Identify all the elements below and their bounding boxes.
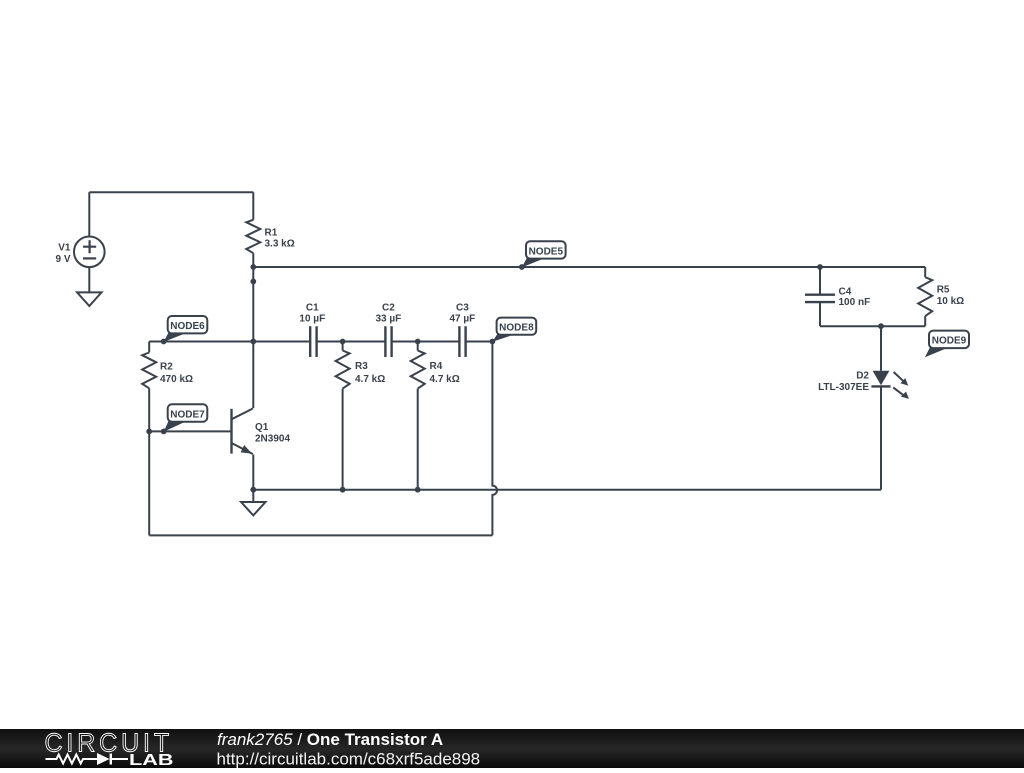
junction dot NODE6 label anchor (161, 339, 167, 345)
junction dot collector at NODE6 wire (250, 339, 256, 345)
svg-text:http://circuitlab.com/c68xrf5a: http://circuitlab.com/c68xrf5ade898 (217, 750, 481, 769)
junction dot NODE8 corner (490, 339, 496, 345)
svg-text:C2: C2 (382, 303, 395, 314)
svg-text:470 kΩ: 470 kΩ (160, 374, 193, 385)
wire R5 top lead (924, 267, 926, 277)
capacitor C1 plates (310, 326, 316, 357)
svg-text:C3: C3 (456, 303, 469, 314)
svg-text:100 nF: 100 nF (839, 297, 871, 308)
logo resistor symbol (46, 755, 98, 764)
transistor Q1 collector stroke (232, 409, 253, 420)
junction dot emitter at ground rail (250, 487, 256, 493)
svg-text:R1: R1 (265, 228, 278, 239)
wire V1 bottom lead to ground (88, 267, 90, 292)
svg-text:C1: C1 (306, 303, 319, 314)
svg-text:2N3904: 2N3904 (255, 433, 290, 444)
wire C4 bottom lead (819, 302, 821, 326)
node NODE8 box (497, 318, 537, 335)
svg-text:NODE6: NODE6 (170, 321, 205, 332)
wire R1 top lead (252, 192, 254, 220)
diode D2 cathode bar (871, 385, 890, 387)
svg-text:R2: R2 (160, 361, 173, 372)
junction dot NODE5 label anchor (519, 264, 525, 270)
wire bottom right horizontal (C4 to R5) (820, 325, 925, 327)
junction dot base wire left (146, 429, 152, 435)
svg-text:C4: C4 (839, 286, 852, 297)
node NODE7 tail (164, 420, 186, 432)
wire Q1 emitter lead (252, 455, 254, 490)
wire NODE8 vertical with hop over ground rail (492, 342, 497, 536)
svg-text:10 µF: 10 µF (299, 314, 325, 325)
wire NODE6 segment 2 (C1 to C2) (317, 341, 386, 343)
wire ground stub at emitter (252, 490, 254, 502)
wire NODE6 segment 3 (C2 to C3) (392, 341, 460, 343)
svg-text:R4: R4 (430, 361, 443, 372)
svg-text:LTL-307EE: LTL-307EE (818, 382, 869, 393)
node NODE9 tail (925, 346, 948, 357)
resistor R1 zigzag (246, 220, 260, 253)
logo diode cathode bar (110, 754, 112, 765)
wire V1 top lead (88, 192, 90, 237)
wire R2 top lead (148, 342, 150, 353)
node NODE5 box (526, 241, 566, 258)
footer bar (0, 729, 1024, 768)
Q1 emitter arrowhead (241, 445, 252, 454)
junction dot C4 top (817, 264, 823, 270)
node NODE6 tail (164, 332, 186, 342)
wire NODE6 segment 4 (C3 to NODE8) (466, 341, 493, 343)
wire Q1 base horizontal (149, 430, 231, 432)
ground symbol at V1 (77, 292, 101, 306)
svg-text:47 µF: 47 µF (450, 314, 476, 325)
node NODE9 box (929, 331, 969, 349)
wire R5 bottom lead (924, 316, 926, 326)
svg-text:NODE9: NODE9 (932, 336, 967, 347)
svg-text:R5: R5 (937, 284, 950, 295)
capacitor C3 plates (459, 326, 465, 357)
svg-text:10 kΩ: 10 kΩ (937, 296, 964, 307)
junction dot R1 bottom at NODE5 (250, 264, 256, 270)
transistor Q1 base bar (230, 409, 232, 454)
resistor R4 zigzag (411, 351, 425, 389)
wire C4 top lead (819, 267, 821, 295)
diode D2 triangle (873, 371, 890, 385)
V1 plus sign (83, 240, 96, 253)
junction dot R3 bottom (340, 487, 346, 493)
svg-text:NODE5: NODE5 (529, 246, 564, 257)
wire top (V1 plus to R1 top) (89, 191, 253, 193)
wire NODE6 segment 1 (149, 341, 310, 343)
junction dot R3 top (340, 339, 346, 345)
junction dot NODE7 label anchor (161, 429, 167, 435)
V1 minus sign (83, 257, 96, 259)
LED arrow 2 shaft (893, 387, 903, 395)
svg-text:Q1: Q1 (255, 422, 269, 433)
node NODE8 tail (492, 333, 514, 342)
capacitor C2 plates (385, 326, 391, 357)
LED arrow 2 head (901, 392, 909, 399)
resistor R2 zigzag (142, 353, 156, 389)
resistor R3 zigzag (336, 351, 350, 389)
wire D2 anode lead (880, 326, 882, 371)
svg-text:frank2765 / One Transistor A: frank2765 / One Transistor A (217, 730, 443, 749)
node NODE6 box (168, 316, 208, 333)
wire R3 top lead (342, 342, 344, 351)
voltage source V1 circle (74, 237, 105, 268)
junction dot R4 top (415, 339, 421, 345)
svg-text:33 µF: 33 µF (376, 314, 402, 325)
LED arrow 1 head (900, 378, 908, 386)
wire R4 bottom lead (417, 389, 419, 490)
node NODE7 box (168, 404, 208, 421)
svg-text:3.3 kΩ: 3.3 kΩ (265, 239, 295, 250)
logo diode wire (110, 758, 129, 760)
svg-text:R3: R3 (355, 361, 368, 372)
svg-text:4.7 kΩ: 4.7 kΩ (430, 374, 460, 385)
junction dot D2 branch at bottom right wire (878, 323, 884, 329)
svg-text:9 V: 9 V (55, 254, 70, 265)
capacitor C4 plates (805, 295, 835, 302)
wire D2 cathode lead (880, 387, 882, 490)
LED arrow 1 shaft (894, 372, 904, 381)
transistor Q1 emitter stroke (232, 443, 253, 454)
svg-text:V1: V1 (58, 243, 71, 254)
svg-text:NODE8: NODE8 (499, 323, 534, 334)
svg-text:LAB: LAB (129, 752, 174, 768)
svg-text:D2: D2 (856, 370, 869, 381)
svg-text:NODE7: NODE7 (170, 409, 205, 420)
junction dot R4 bottom (415, 487, 421, 493)
wire R4 top lead (417, 342, 419, 351)
wire bottom feedback horizontal (149, 534, 492, 536)
wire ground rail (emitter to D2) (253, 489, 881, 491)
ground symbol at Q1 emitter (241, 502, 265, 515)
logo diode triangle (97, 753, 110, 765)
node NODE5 tail (522, 257, 545, 268)
wire R3 bottom lead (342, 389, 344, 490)
resistor R5 zigzag (918, 277, 932, 316)
wire NODE5 horizontal (253, 266, 925, 268)
junction dot below NODE5 on collector vertical (250, 279, 256, 285)
wire R1 bottom to Q1 collector vertical (252, 253, 254, 408)
svg-text:4.7 kΩ: 4.7 kΩ (355, 374, 385, 385)
wire R2 bottom lead and left vertical (148, 388, 150, 535)
